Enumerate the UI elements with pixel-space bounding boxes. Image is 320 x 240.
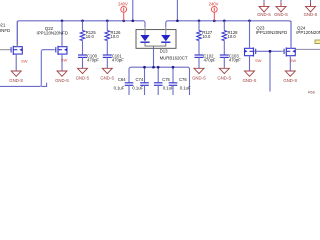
node yellow off-page marker bbox=[315, 40, 320, 44]
transistor Q24 bbox=[282, 21, 296, 71]
svg-text:GND-S: GND-S bbox=[76, 76, 90, 81]
svg-text:C76: C76 bbox=[179, 77, 187, 82]
svg-text:R66: R66 bbox=[308, 90, 315, 94]
svg-text:10.0: 10.0 bbox=[202, 34, 211, 39]
svg-text:IPP120N20NFD: IPP120N20NFD bbox=[256, 30, 287, 35]
node junction dots bottom bus bbox=[143, 66, 174, 69]
svg-text:10.0: 10.0 bbox=[228, 34, 237, 39]
svg-text:GND-S: GND-S bbox=[100, 76, 114, 81]
resistor R127 bbox=[197, 21, 202, 55]
svg-text:SW: SW bbox=[290, 58, 297, 63]
svg-text:0.1uF: 0.1uF bbox=[163, 85, 174, 90]
capacitor C103 bbox=[220, 55, 229, 68]
svg-text:IPP120N20NFD: IPP120N20NFD bbox=[37, 31, 68, 36]
svg-text:IPP120N20NFD: IPP120N20NFD bbox=[0, 28, 10, 33]
ground GND-S under Q21 bbox=[9, 71, 23, 83]
svg-text:0.1uF: 0.1uF bbox=[180, 85, 191, 90]
svg-text:GND-S: GND-S bbox=[192, 76, 206, 81]
svg-text:470pF: 470pF bbox=[229, 58, 241, 63]
wire bottom bus bbox=[129, 67, 190, 95]
wire D13 cathode to bottom bus bbox=[153, 48, 155, 67]
svg-text:GND-S: GND-S bbox=[243, 78, 257, 83]
svg-text:IPP120N20NFD: IPP120N20NFD bbox=[296, 30, 320, 35]
capacitor C102 bbox=[195, 55, 204, 68]
wire Q24 drain tap to right edge bbox=[295, 48, 320, 50]
svg-text:470pF: 470pF bbox=[87, 58, 99, 63]
resistor R128 bbox=[222, 21, 227, 55]
ground GND-S top 3 bbox=[304, 0, 318, 17]
svg-text:GND-S: GND-S bbox=[283, 78, 297, 83]
wire top bus right segment bbox=[166, 21, 291, 47]
transistor Q22 bbox=[54, 21, 68, 71]
capacitor C75 bbox=[154, 83, 163, 95]
transistor Q21 bbox=[0, 21, 22, 71]
svg-text:240V: 240V bbox=[209, 1, 219, 6]
transistor Q23 (mirrored, gate right) bbox=[245, 21, 256, 71]
capacitor C101 bbox=[103, 55, 112, 68]
svg-text:0.1uF: 0.1uF bbox=[114, 85, 125, 90]
wire top entry at x=132.8 bbox=[132, 0, 134, 21]
svg-text:SW: SW bbox=[61, 57, 68, 62]
ground GND-S under Q24 bbox=[283, 71, 297, 83]
svg-text:SW: SW bbox=[21, 59, 28, 64]
svg-text:MURB1620CT: MURB1620CT bbox=[160, 55, 188, 60]
svg-text:GND-S: GND-S bbox=[217, 76, 231, 81]
capacitor C100 bbox=[78, 55, 87, 68]
svg-text:GND-S: GND-S bbox=[304, 12, 318, 17]
svg-text:SW: SW bbox=[255, 58, 262, 63]
diode D13 dual common-cathode bbox=[136, 27, 176, 48]
resistor R126 bbox=[105, 21, 110, 55]
power 240V right bbox=[209, 1, 219, 20]
svg-text:GND-S: GND-S bbox=[9, 78, 23, 83]
wire Q23/Q24 shared gate run bbox=[256, 50, 282, 52]
svg-text:240V: 240V bbox=[118, 1, 128, 6]
svg-text:C74: C74 bbox=[136, 77, 144, 82]
svg-text:10.0: 10.0 bbox=[86, 34, 95, 39]
svg-text:C64: C64 bbox=[118, 77, 126, 82]
ground GND-S top 1 bbox=[257, 0, 271, 17]
ground GND-S top 2 bbox=[274, 0, 288, 17]
wire Q22 gate run bbox=[0, 50, 54, 87]
svg-text:D13: D13 bbox=[160, 49, 168, 54]
capacitor C64 bbox=[125, 83, 134, 95]
ground GND-S under C100 bbox=[76, 68, 90, 80]
svg-text:Q21: Q21 bbox=[0, 23, 6, 28]
wire top entry at x=177.4 bbox=[176, 0, 178, 21]
ground GND-S under C102 bbox=[192, 68, 206, 80]
svg-text:GND-S: GND-S bbox=[257, 12, 271, 17]
ground GND-S under Q23 bbox=[243, 71, 257, 83]
node junction dots top bus bbox=[61, 19, 251, 22]
svg-text:470pF: 470pF bbox=[204, 58, 216, 63]
capacitor C76 bbox=[169, 83, 178, 95]
ground GND-S under C103 bbox=[217, 68, 231, 80]
svg-text:C75: C75 bbox=[162, 77, 170, 82]
ground GND-S under C101 bbox=[100, 68, 114, 80]
ground GND-S under Q22 bbox=[55, 71, 69, 83]
wire top bus left segment bbox=[17, 21, 145, 47]
resistor R125 bbox=[80, 21, 85, 55]
svg-text:GND-S: GND-S bbox=[55, 78, 69, 83]
svg-text:470pF: 470pF bbox=[112, 58, 124, 63]
svg-text:GND-S: GND-S bbox=[274, 12, 288, 17]
power 240V left bbox=[118, 1, 128, 20]
svg-text:0.1uF: 0.1uF bbox=[132, 85, 143, 90]
svg-text:10.0: 10.0 bbox=[111, 34, 120, 39]
capacitor C74 bbox=[140, 83, 149, 95]
